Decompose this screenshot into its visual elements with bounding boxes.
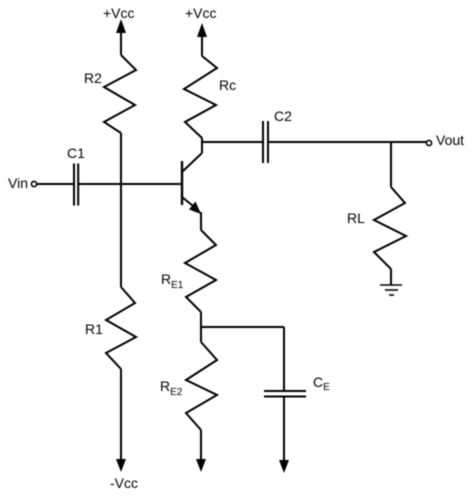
wire RL to ground: [390, 269, 392, 285]
capacitor C2: [263, 121, 268, 163]
wire C1 to base (node at 121,184): [78, 183, 182, 185]
power +Vcc arrow (collector rail): [197, 23, 207, 56]
svg-text:Vin: Vin: [8, 175, 28, 191]
svg-text:R1: R1: [85, 321, 103, 337]
resistor Rc: [184, 56, 217, 138]
ground arrow (RE2): [196, 459, 206, 472]
resistor R2: [104, 55, 136, 133]
svg-text:RL: RL: [347, 210, 365, 226]
svg-text:C2: C2: [274, 108, 292, 124]
svg-text:C1: C1: [67, 145, 85, 161]
wire R2 bottom to R1 top (crosses base wire, node at 121,184): [120, 133, 122, 287]
resistor RL: [374, 187, 406, 269]
svg-text:Rc: Rc: [219, 77, 236, 93]
wire emitter down: [200, 212, 202, 230]
wire Rc bottom to collector node: [201, 138, 203, 153]
wire R1 to -Vcc arrow: [120, 369, 122, 461]
wire node to RL: [390, 142, 392, 187]
resistor RE2: [186, 342, 217, 430]
svg-text:R2: R2: [84, 70, 102, 86]
output terminal Vout: [426, 140, 431, 145]
wire CE branch down: [283, 327, 285, 391]
wire node to CE branch: [201, 326, 284, 328]
power +Vcc arrow (left rail): [116, 19, 126, 55]
transistor Q1: [182, 153, 202, 214]
svg-text:+Vcc: +Vcc: [103, 5, 135, 21]
resistor R1: [106, 287, 136, 369]
capacitor CE: [264, 391, 306, 397]
ground arrow (CE): [279, 460, 289, 473]
power -Vcc arrow: [116, 459, 126, 472]
ground symbol: [380, 285, 402, 295]
svg-text:-Vcc: -Vcc: [110, 475, 138, 491]
svg-text:Vout: Vout: [436, 132, 464, 148]
wire RE2 to ground arrow: [200, 430, 202, 461]
wire RE1 to RE2 (node at 201,327): [200, 312, 202, 342]
svg-text:+Vcc: +Vcc: [185, 5, 217, 21]
capacitor C1: [74, 164, 78, 206]
resistor RE1: [185, 230, 216, 312]
wire CE to ground arrow: [283, 397, 285, 463]
wire Vin to C1: [37, 183, 73, 185]
node collector: wire to C2: [202, 141, 263, 143]
wire C2 to Vout (node at 391,142): [268, 141, 427, 143]
